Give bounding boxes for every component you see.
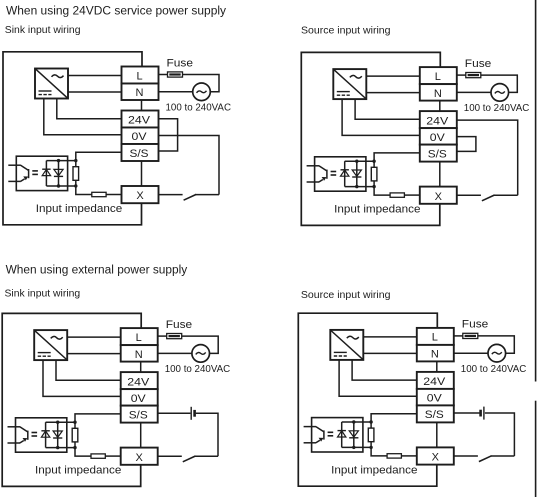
wire: resistor R2 to terminal X (105, 455, 120, 457)
optocoupler light-coupling bars (328, 431, 334, 433)
wire: PS to terminal 24V (352, 360, 417, 380)
input switch SW (open contact) (184, 194, 197, 200)
junction: resistor bottom (74, 184, 77, 187)
wire: battery to input switch (196, 413, 218, 456)
wire: PS to terminal 24V (355, 99, 420, 119)
wire: PS to terminal L (366, 75, 420, 77)
wire: terminal S/S to terminal X (internal link) (141, 161, 143, 186)
junction: D2 bottom (56, 446, 59, 449)
wire: terminal S/S to terminal X (internal link) (439, 162, 441, 187)
wire: terminal S/S to terminal X (internal link) (140, 423, 142, 448)
junction: D2 bottom (355, 185, 358, 188)
wire: battery to input switch (485, 413, 515, 456)
svg-text:When using external power supp: When using external power supply (6, 265, 188, 277)
terminal L (121, 328, 158, 345)
LED D1 stem (45, 422, 47, 447)
optocoupler U (input isolator) (315, 157, 366, 191)
svg-text:100 to 240VAC: 100 to 240VAC (165, 364, 231, 375)
power supply PS (AC/DC converter) (330, 330, 363, 360)
junction: resistor bottom (372, 185, 375, 188)
resistor R1 (shunt) (368, 428, 374, 442)
wire: PS to terminal L (67, 336, 121, 338)
svg-text:X: X (432, 452, 440, 464)
wire: shunt top stub (74, 422, 76, 428)
terminal S/S (121, 406, 158, 423)
LED D2 (anode up) (349, 431, 358, 437)
LED pair rails (bottom) (342, 446, 371, 448)
svg-text:L: L (435, 71, 441, 83)
junction: resistor top (369, 420, 372, 423)
wire: terminal 0V to terminal S/S (source link) (457, 137, 476, 152)
svg-text:Fuse: Fuse (166, 319, 193, 331)
resistor R1 (shunt) (73, 167, 79, 181)
wire: shunt bottom stub (74, 442, 76, 448)
optocoupler U (input isolator) (312, 418, 363, 452)
terminal X (121, 448, 158, 465)
fuse F (167, 334, 182, 339)
terminal N (420, 84, 457, 101)
optocoupler U (input isolator) (15, 418, 66, 452)
optocoupler phototransistor Q (319, 166, 327, 171)
wire: shunt bottom stub (75, 180, 77, 186)
wire: terminal N to terminal 24V (internal link) (140, 362, 142, 373)
resistor R2 (series input) (390, 193, 404, 197)
optocoupler phototransistor Q (316, 427, 324, 432)
wire: terminal L to fuse F (454, 335, 463, 337)
terminal L (420, 67, 457, 84)
wire: terminal 0V to input switch (159, 136, 220, 195)
wire: fuse to AC source (183, 75, 220, 92)
wire: PS to terminal 24V (56, 360, 121, 380)
terminal N (417, 345, 454, 362)
wire: shunt top stub (373, 161, 375, 167)
svg-text:X: X (136, 452, 144, 464)
wire: terminal N to terminal 24V (internal link) (141, 100, 143, 111)
svg-text:N: N (135, 349, 143, 361)
junction: D2 bottom (57, 184, 60, 187)
wire: optocoupler to terminal S/S (75, 414, 121, 422)
terminal 0V (420, 128, 457, 145)
wire: shunt bottom stub (370, 442, 372, 448)
wire: PS to terminal L (68, 75, 122, 77)
wire: shunt top stub (75, 161, 77, 167)
wire: terminal N to terminal 24V (internal link) (436, 361, 438, 372)
optocoupler phototransistor Q (21, 165, 29, 170)
svg-text:Input impedance: Input impedance (334, 204, 420, 216)
PLC enclosure outline (298, 313, 437, 486)
svg-text:24V: 24V (426, 115, 449, 127)
LED pair rails (bottom) (46, 185, 75, 187)
junction: D2 top (352, 420, 355, 423)
wire: resistor R2 to terminal X (404, 194, 419, 196)
svg-text:24V: 24V (127, 376, 150, 388)
svg-text:Fuse: Fuse (462, 319, 489, 331)
junction: resistor top (73, 421, 76, 424)
wire: terminal S/S to battery (454, 412, 480, 414)
resistor R2 (series input) (91, 454, 105, 458)
optocoupler light-coupling bars (32, 432, 38, 434)
terminal 0V (121, 389, 158, 406)
resistor R1 (shunt) (72, 428, 78, 442)
svg-text:100 to 240VAC: 100 to 240VAC (464, 103, 530, 114)
svg-text:N: N (136, 87, 144, 99)
AC source G (100 to 240VAC) (491, 84, 509, 102)
wire: AC source to terminal N (159, 91, 193, 93)
LED D2 stem (57, 422, 59, 447)
LED pair rails (bottom) (345, 186, 374, 188)
optocoupler phototransistor leads (304, 426, 317, 428)
svg-text:Source input wiring: Source input wiring (301, 24, 391, 36)
PLC enclosure outline (3, 52, 142, 225)
wire: optocoupler to resistor R2 (374, 187, 390, 196)
wire: terminal S/S to battery (158, 412, 191, 414)
wire: PS to terminal 0V (44, 99, 122, 135)
optocoupler U (input isolator) (16, 156, 67, 190)
svg-text:Input impedance: Input impedance (35, 465, 121, 477)
wire: optocoupler to resistor R2 (76, 186, 92, 195)
svg-text:S/S: S/S (130, 148, 149, 160)
svg-text:Fuse: Fuse (465, 58, 492, 70)
svg-text:100 to 240VAC: 100 to 240VAC (461, 364, 527, 375)
resistor R1 (shunt) (371, 167, 377, 181)
svg-text:0V: 0V (131, 393, 147, 405)
LED D2 stem (58, 161, 60, 186)
wire: terminal L to fuse F (457, 74, 466, 76)
resistor R2 (series input) (92, 192, 106, 196)
LED D2 (anode up) (53, 431, 62, 437)
svg-text:24V: 24V (423, 376, 446, 388)
terminal N (122, 84, 159, 101)
AC source G (100 to 240VAC) (192, 345, 210, 363)
svg-text:L: L (136, 332, 142, 344)
optocoupler light-coupling bars (331, 171, 337, 173)
battery BT (external 24VDC) (479, 410, 482, 417)
power supply PS (AC/DC converter) (333, 69, 366, 99)
LED pair rails (top) (46, 421, 75, 423)
wire: terminal L to fuse F (159, 74, 168, 76)
svg-text:Input impedance: Input impedance (331, 465, 417, 477)
wire: PS to terminal 0V (43, 360, 121, 396)
wire: terminal S/S to terminal X (internal link) (436, 422, 438, 447)
wire: PS to terminal N (366, 92, 420, 94)
terminal 24V (417, 372, 454, 389)
svg-text:24V: 24V (128, 115, 151, 127)
junction: D2 top (56, 421, 59, 424)
wire: terminal X to input switch (158, 455, 182, 457)
wire: fuse to AC source (481, 75, 518, 92)
fuse F (168, 72, 183, 77)
wire: AC source to terminal N (457, 91, 491, 93)
LED D1 (anode down) (41, 431, 49, 437)
LED D2 (anode up) (54, 169, 63, 175)
wire: fuse to AC source (478, 336, 515, 353)
wire: fuse to AC source (182, 336, 219, 353)
wire: PS to terminal 24V (57, 99, 122, 119)
wire: optocoupler to resistor R2 (371, 447, 387, 456)
svg-text:S/S: S/S (425, 409, 444, 421)
wire: terminal N to terminal 24V (internal link) (439, 101, 441, 112)
svg-text:Fuse: Fuse (167, 57, 194, 69)
wire: terminal L to fuse F (158, 335, 167, 337)
svg-text:S/S: S/S (428, 148, 447, 160)
AC source G (100 to 240VAC) (488, 344, 506, 362)
LED D1 (anode down) (42, 169, 50, 175)
optocoupler phototransistor leads (8, 164, 20, 166)
terminal 0V (122, 128, 159, 145)
svg-text:N: N (431, 349, 439, 361)
wire: PS to terminal 0V (339, 360, 417, 396)
svg-text:X: X (136, 190, 144, 202)
terminal X (122, 186, 159, 203)
wire: optocoupler to resistor R2 (75, 448, 91, 457)
power supply PS (AC/DC converter) (34, 330, 67, 360)
wire: shunt top stub (370, 422, 372, 428)
terminal S/S (417, 405, 454, 422)
LED pair rails (top) (342, 421, 371, 423)
junction: D2 top (57, 159, 60, 162)
svg-text:0V: 0V (430, 132, 446, 144)
svg-text:Source input wiring: Source input wiring (301, 289, 391, 301)
svg-text:0V: 0V (132, 131, 148, 143)
svg-text:100 to 240VAC: 100 to 240VAC (166, 103, 232, 114)
wire: PS to terminal L (363, 336, 417, 338)
optocoupler phototransistor leads (8, 426, 21, 428)
junction: resistor top (372, 160, 375, 163)
optocoupler light-coupling bars (32, 170, 38, 172)
terminal 0V (417, 389, 454, 406)
battery BT (external 24VDC) (190, 407, 192, 420)
page border (right table rule, upper) (535, 0, 537, 382)
power supply PS (AC/DC converter) (35, 69, 68, 99)
AC source G (100 to 240VAC) (193, 83, 211, 101)
terminal L (122, 67, 159, 84)
LED D1 stem (344, 161, 346, 186)
fuse F (466, 73, 481, 78)
svg-text:X: X (435, 191, 443, 203)
wire: resistor R2 to terminal X (401, 455, 416, 457)
terminal 24V (121, 372, 158, 389)
LED D1 (anode down) (341, 170, 349, 176)
svg-text:L: L (432, 332, 438, 344)
svg-text:Sink input wiring: Sink input wiring (5, 24, 81, 36)
wire: PS to terminal 0V (342, 99, 420, 135)
wire: optocoupler to terminal S/S (374, 153, 420, 161)
terminal X (420, 187, 457, 204)
wire: resistor R2 to terminal X (106, 194, 121, 196)
wire: terminal X to input switch (457, 194, 481, 196)
terminal N (121, 345, 158, 362)
junction: resistor bottom (369, 446, 372, 449)
wire: AC source to terminal N (158, 352, 192, 354)
junction: D2 top (355, 160, 358, 163)
LED D1 stem (45, 161, 47, 186)
optocoupler phototransistor leads (307, 165, 320, 167)
wire: terminal 24V to input switch (457, 120, 518, 195)
svg-text:Sink input wiring: Sink input wiring (5, 288, 81, 300)
junction: resistor top (74, 159, 77, 162)
page border (right table rule, lower) (535, 401, 537, 497)
LED D1 (anode down) (338, 431, 346, 437)
LED D1 stem (341, 422, 343, 447)
svg-text:L: L (136, 70, 142, 82)
junction: resistor bottom (73, 446, 76, 449)
svg-text:Input impedance: Input impedance (36, 203, 122, 215)
wire: PS to terminal N (363, 352, 417, 354)
terminal S/S (122, 144, 159, 161)
wire: terminal 24V to terminal S/S (sink link) (159, 119, 178, 151)
LED pair rails (bottom) (46, 447, 75, 449)
input switch SW (open contact) (479, 456, 492, 462)
fuse F (463, 333, 478, 338)
input switch SW (open contact) (183, 456, 196, 462)
wire: PS to terminal N (67, 353, 121, 355)
wire: optocoupler to terminal S/S (76, 152, 122, 160)
wire: PS to terminal N (68, 91, 122, 93)
input switch SW (open contact) (482, 195, 495, 201)
junction: D2 bottom (352, 446, 355, 449)
wire: optocoupler to terminal S/S (371, 414, 417, 422)
PLC enclosure outline (2, 313, 141, 486)
LED D2 (anode up) (352, 170, 361, 176)
svg-text:N: N (434, 88, 442, 100)
terminal S/S (420, 145, 457, 162)
LED pair rails (top) (345, 160, 374, 162)
optocoupler phototransistor Q (20, 427, 28, 432)
PLC enclosure outline (301, 52, 440, 225)
terminal 24V (122, 111, 159, 128)
wire: shunt bottom stub (373, 181, 375, 187)
resistor R2 (series input) (387, 454, 401, 458)
LED pair rails (top) (46, 160, 75, 162)
terminal X (417, 447, 454, 464)
svg-text:When using 24VDC service power: When using 24VDC service power supply (6, 5, 226, 17)
terminal 24V (420, 111, 457, 128)
LED D2 stem (353, 422, 355, 447)
wire: AC source to terminal N (454, 352, 488, 354)
svg-text:0V: 0V (427, 393, 443, 405)
LED D2 stem (356, 161, 358, 186)
terminal L (417, 328, 454, 345)
svg-text:S/S: S/S (129, 409, 148, 421)
wire: terminal X to input switch (454, 455, 478, 457)
wire: terminal X to input switch (159, 194, 183, 196)
